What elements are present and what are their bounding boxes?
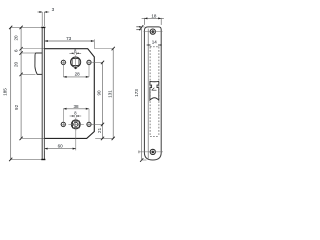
wire latch bottom extension — [21, 73, 35, 75]
spindle vertical centerline — [75, 55, 77, 67]
svg-text:131: 131 — [107, 90, 112, 98]
wire bottom hole centerline — [139, 151, 163, 153]
dimension 8 upper arrows — [69, 52, 81, 54]
svg-text:60: 60 — [58, 144, 64, 149]
faceplate bottom cap — [41, 159, 45, 161]
dimension 173 strike height — [140, 25, 143, 162]
spindle hub circle — [71, 57, 81, 67]
dimension 8 lower arrows — [70, 115, 82, 117]
svg-text:6: 6 — [13, 49, 18, 52]
svg-text:18: 18 — [151, 14, 157, 19]
svg-text:28: 28 — [75, 72, 81, 77]
wire body top extension left — [21, 48, 44, 50]
svg-text:92: 92 — [14, 104, 19, 110]
svg-text:8: 8 — [74, 110, 77, 115]
wire strike top extension for 173 — [141, 26, 144, 28]
svg-text:90: 90 — [97, 90, 102, 96]
strike bottom hole — [150, 149, 155, 154]
wire faceplate bottom extension line — [10, 158, 41, 160]
wc follower v centerline — [75, 118, 77, 131]
node arrow blob below spindle — [74, 67, 77, 69]
faceplate top cap — [41, 26, 45, 28]
wire screw extension lower right up — [88, 109, 90, 123]
strike hidden cutout dashed top — [150, 46, 159, 48]
svg-text:173: 173 — [134, 89, 139, 97]
latch bevel seen in opening — [152, 89, 157, 91]
dimension 60 backset — [44, 148, 75, 150]
screw hole lower left — [61, 122, 65, 126]
dimension 18 strike width — [142, 18, 164, 25]
svg-text:14: 14 — [152, 40, 158, 45]
wire body right top extension — [93, 39, 95, 48]
wire backset extension left — [43, 139, 45, 151]
wire latch top extension — [21, 52, 36, 54]
svg-text:3: 3 — [52, 7, 55, 12]
wc follower inner circle — [74, 122, 78, 126]
wire body top extension right — [94, 48, 113, 50]
wire screw extension upper right down — [88, 64, 90, 77]
wire backset extension right centerline — [75, 130, 77, 151]
svg-text:185: 185 — [2, 88, 7, 96]
dimension chain line left x21 — [20, 26, 23, 141]
svg-text:73: 73 — [66, 36, 72, 41]
strike hidden cutout dashed bottom — [150, 135, 159, 137]
screw hole upper left — [61, 60, 65, 64]
dimension 73 — [44, 40, 94, 42]
lock body outline — [44, 49, 94, 139]
dimension 38 — [63, 108, 89, 110]
dimension 14 cutout width — [146, 44, 162, 46]
dimension arrows top left of strike — [136, 26, 141, 28]
screw hole lower right — [87, 122, 91, 126]
faceplate side view plate lines — [42, 27, 44, 159]
strike lip fold line — [147, 29, 149, 159]
strike plate outline — [144, 27, 161, 160]
strike hidden cutout dashed left — [149, 47, 151, 137]
wire body bottom extension right — [95, 137, 113, 139]
spindle square 8mm — [72, 59, 79, 66]
wire faceplate top extension line — [10, 26, 41, 28]
wire body bottom extension left — [21, 137, 44, 139]
strike hidden cutout dashed right — [158, 47, 160, 137]
dimension 185 line left — [9, 26, 12, 162]
wire screw extension upper left down — [62, 64, 64, 77]
latch opening in strike — [150, 81, 159, 100]
svg-text:38: 38 — [73, 104, 79, 109]
svg-text:21: 21 — [97, 127, 102, 133]
wire follower centerline extension right — [91, 123, 103, 125]
dimension line B x113.2 — [112, 47, 115, 140]
strike top hole — [150, 29, 155, 34]
wire strike bottom extension for 173 — [141, 159, 146, 161]
dimension line A x102.5 — [101, 61, 104, 141]
svg-text:20: 20 — [13, 35, 18, 41]
screw hole upper right — [87, 60, 91, 64]
wire spindle centerline extension right — [92, 61, 102, 63]
wire screw extension lower left up — [62, 109, 64, 123]
latch bolt side view — [35, 53, 42, 74]
dimension 28 — [63, 76, 89, 78]
wc follower outer circle — [71, 120, 80, 129]
dimension 3 faceplate thickness — [37, 12, 49, 26]
wc follower h centerline — [68, 123, 83, 125]
wc follower square — [73, 121, 80, 128]
svg-text:20: 20 — [13, 62, 18, 68]
wire top hole centerline — [144, 31, 163, 33]
